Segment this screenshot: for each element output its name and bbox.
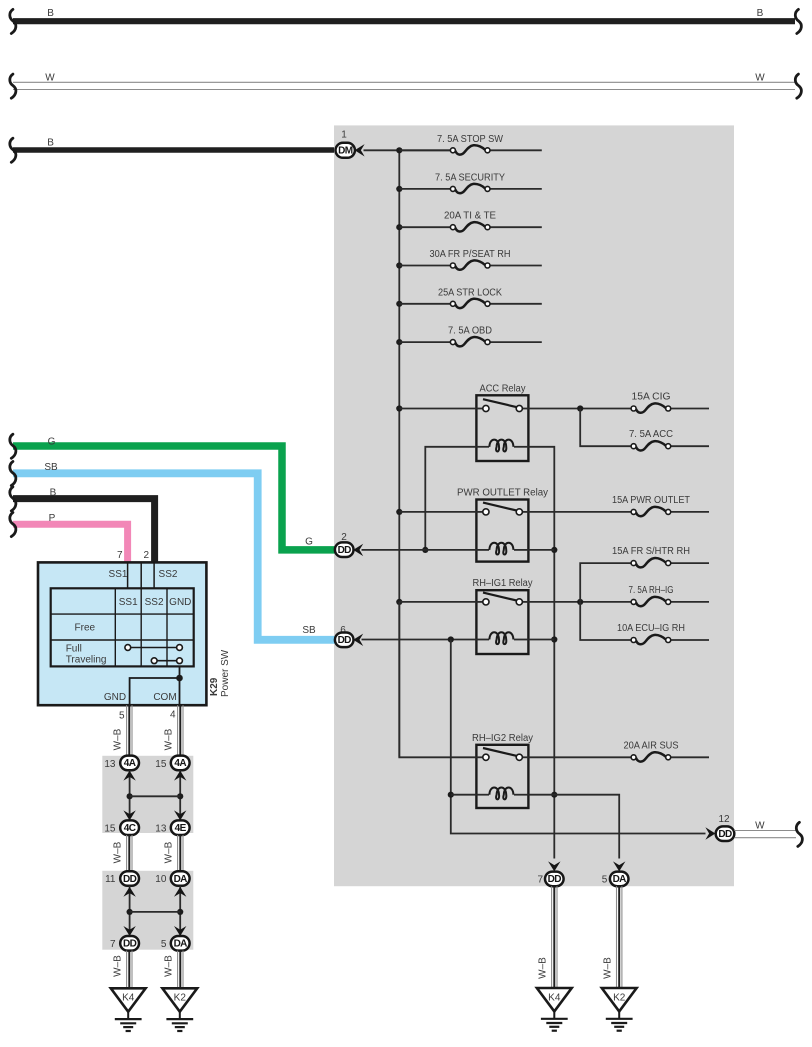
node SB branch at IG2 coil row: [448, 792, 454, 798]
wire PWR OUTLET relay output: [528, 511, 633, 513]
svg-text:B: B: [50, 487, 57, 498]
arrow down into DD7: [123, 926, 135, 936]
arrow up into DA10: [174, 887, 186, 897]
node SB branch: [448, 636, 454, 642]
connector DA (pin 5): [171, 936, 190, 951]
wire IG1 coil right stub: [528, 639, 554, 641]
wire bus W: [13, 82, 795, 89]
svg-text:7: 7: [110, 939, 116, 950]
continuation squiggle top-left: [10, 9, 16, 33]
svg-text:W: W: [45, 72, 55, 83]
wire ACC relay output: [528, 408, 633, 410]
fuse 7.5A SECURITY: [399, 172, 542, 193]
svg-text:11: 11: [105, 874, 116, 885]
node jumper DD: [127, 909, 133, 915]
fuse 10A ECU-IG RH: [617, 623, 709, 644]
svg-text:SS1: SS1: [109, 569, 128, 580]
power switch K29 body: [38, 562, 206, 705]
wire W-B DA5 to K2 ground: [617, 886, 622, 988]
arrow up into DD11: [123, 887, 135, 897]
svg-text:15A FR S/HTR RH: 15A FR S/HTR RH: [612, 546, 690, 557]
wire bus to RH-IG1 relay: [399, 601, 476, 603]
wire W-B DD to K4 ground: [127, 951, 132, 989]
relay PWR OUTLET: [476, 500, 528, 562]
svg-text:DD: DD: [338, 545, 352, 556]
arrow down into 4E: [174, 810, 186, 820]
svg-text:SB: SB: [302, 625, 316, 636]
svg-text:W: W: [755, 821, 765, 832]
wire SB (light blue): [13, 473, 336, 640]
svg-text:7: 7: [117, 550, 123, 561]
divider SS1/SS2: [140, 562, 142, 588]
svg-text:W–B: W–B: [164, 841, 175, 863]
svg-text:30A FR P/SEAT RH: 30A FR P/SEAT RH: [430, 249, 511, 260]
svg-text:P: P: [49, 513, 56, 524]
svg-text:RH–IG1 Relay: RH–IG1 Relay: [473, 578, 533, 589]
node coil common at IG1 row: [551, 636, 557, 642]
svg-text:SS2: SS2: [145, 597, 164, 608]
fuse 15A CIG: [631, 392, 709, 413]
connector 4C: [120, 820, 139, 835]
fuse 7.5A STOP SW: [399, 134, 542, 155]
fuse 30A FR P/SEAT RH: [399, 249, 542, 270]
fuse 25A STR LOCK: [399, 287, 542, 308]
svg-text:15A PWR OUTLET: 15A PWR OUTLET: [612, 495, 690, 506]
svg-text:W–B: W–B: [603, 957, 614, 979]
svg-text:5: 5: [602, 875, 608, 886]
svg-text:W: W: [755, 72, 765, 83]
svg-text:15: 15: [104, 823, 116, 834]
svg-text:Full: Full: [66, 644, 82, 655]
svg-text:SS1: SS1: [119, 597, 138, 608]
svg-text:DM: DM: [338, 146, 353, 157]
continuation squiggle W-left: [10, 74, 16, 98]
arrow up into 4A left: [123, 771, 135, 781]
fuse 15A PWR OUTLET: [612, 495, 709, 516]
connector 4E: [171, 820, 190, 835]
wire W from DD12: [734, 831, 796, 838]
wire W-B DA to K2 ground: [178, 951, 183, 989]
svg-text:B: B: [757, 8, 764, 19]
wire DM to fuse bus: [364, 149, 453, 151]
arrow into DD6: [353, 634, 363, 646]
svg-text:GND: GND: [104, 692, 126, 703]
svg-text:1: 1: [341, 130, 347, 141]
continuation squiggle B-feed left: [10, 138, 16, 162]
continuation squiggle W-right: [795, 74, 801, 98]
svg-text:DD: DD: [548, 874, 562, 885]
svg-text:13: 13: [104, 759, 116, 770]
svg-text:G: G: [48, 436, 56, 447]
svg-text:W–B: W–B: [164, 728, 175, 750]
connector DD (pin 12): [716, 826, 735, 841]
node on bus ACC relay row: [396, 405, 402, 411]
wire SB branch down to 12DD: [451, 640, 706, 834]
node coil common at IG2 row: [551, 792, 557, 798]
arrow into DD12: [705, 827, 715, 839]
wire bus to ACC relay: [399, 408, 476, 410]
continuation squiggle B-SW: [10, 487, 16, 511]
svg-text:K4: K4: [122, 993, 135, 1004]
svg-text:SB: SB: [44, 462, 58, 473]
ground K4 (left): [111, 988, 146, 1031]
relay RH-IG1: [476, 590, 528, 654]
svg-text:20A TI & TE: 20A TI & TE: [444, 211, 496, 222]
ground K2 (right): [602, 988, 637, 1031]
wire between DD pins: [129, 886, 131, 936]
svg-text:7. 5A ACC: 7. 5A ACC: [629, 429, 673, 440]
wire GND column to COM pin: [179, 666, 181, 705]
wire branch down to 10A ECU-IG RH: [580, 602, 633, 640]
switch state table: [51, 588, 194, 666]
svg-text:4A: 4A: [124, 758, 136, 769]
svg-text:RH–IG2 Relay: RH–IG2 Relay: [472, 733, 533, 744]
svg-text:K29: K29: [209, 677, 220, 696]
connector DD (pin 11): [120, 871, 139, 886]
connector DD (pin 2): [335, 542, 354, 557]
svg-text:20A AIR SUS: 20A AIR SUS: [624, 740, 679, 751]
connector 4A (pin 15): [171, 756, 190, 771]
wire PWR coil right stub: [528, 549, 554, 551]
wire P (pink) to power SW: [13, 524, 128, 563]
continuation squiggle G: [10, 434, 16, 458]
wire B feed to DM: [13, 147, 336, 153]
ground K2 (left): [162, 988, 197, 1031]
svg-text:COM: COM: [153, 692, 176, 703]
node on bus row1: [396, 147, 402, 153]
wire jumper: [130, 795, 181, 797]
svg-text:13: 13: [155, 823, 167, 834]
node ACC output branch: [577, 405, 583, 411]
svg-text:4: 4: [170, 709, 176, 720]
wire RH-IG1 relay output: [528, 601, 633, 603]
svg-text:4E: 4E: [175, 823, 187, 834]
arrow down into DA5: [174, 926, 186, 936]
svg-text:15: 15: [155, 759, 167, 770]
svg-text:GND: GND: [169, 597, 191, 608]
junction block 4 background: [102, 756, 193, 833]
ground K4 (right): [537, 988, 572, 1031]
arrow up into 4A right: [174, 771, 186, 781]
arrow down into 4C: [123, 810, 135, 820]
svg-text:5: 5: [119, 710, 125, 721]
svg-text:DD: DD: [338, 635, 352, 646]
node on bus PWR OUTLET relay row: [396, 509, 402, 515]
arrow into bottom DA: [613, 861, 625, 871]
svg-text:B: B: [47, 138, 54, 149]
svg-text:DA: DA: [613, 874, 627, 885]
svg-text:12: 12: [718, 814, 730, 825]
wire between 4A and 4E: [179, 770, 181, 820]
svg-text:5: 5: [161, 939, 167, 950]
node on bus row3: [396, 224, 402, 230]
node coil common at PWR row: [551, 547, 557, 553]
svg-text:4A: 4A: [174, 758, 186, 769]
svg-text:K2: K2: [613, 992, 626, 1003]
svg-text:W–B: W–B: [538, 957, 549, 979]
svg-text:10: 10: [155, 874, 167, 885]
svg-text:DA: DA: [174, 939, 188, 950]
contact SS2-GND: [151, 658, 182, 664]
wire ACC coil left branch: [425, 447, 476, 550]
continuation squiggle SB: [10, 462, 16, 486]
svg-text:7. 5A OBD: 7. 5A OBD: [448, 326, 492, 337]
wire W-B 4C to DD: [127, 835, 132, 871]
svg-text:B: B: [47, 8, 54, 19]
fuse 7.5A ACC: [629, 429, 709, 450]
node jumper left: [127, 793, 133, 799]
wire to GND pin: [130, 678, 180, 705]
svg-text:W–B: W–B: [164, 955, 175, 977]
node on G feed line: [422, 547, 428, 553]
svg-text:7. 5A STOP SW: 7. 5A STOP SW: [437, 134, 504, 145]
wire SS2 pin into table: [153, 562, 155, 588]
wire SS1 pin into table: [127, 562, 129, 588]
wire G feed from DD2 to PWR OUTLET coil: [362, 549, 477, 551]
wire SB feed from DD6 to RH-IG1 coil: [362, 639, 477, 641]
connector DD (pin 6): [335, 633, 354, 648]
wire branch down to 7.5A ACC: [580, 409, 633, 447]
wire bus to PWR OUTLET relay: [399, 511, 476, 513]
fuse 15A FR S/HTR RH: [612, 546, 709, 567]
svg-text:Traveling: Traveling: [66, 655, 107, 666]
connector DD (pin 7, panel bottom): [545, 872, 564, 887]
arrow into bottom DD: [548, 861, 560, 871]
node on bus row2: [396, 186, 402, 192]
wire jumper DD-DA: [130, 911, 181, 913]
svg-text:25A STR LOCK: 25A STR LOCK: [438, 287, 502, 298]
svg-text:K4: K4: [548, 992, 561, 1003]
arrow into DD2: [353, 544, 363, 556]
wire RH-IG2 relay output: [528, 756, 633, 758]
continuation squiggle DD12 wire: [796, 822, 802, 846]
node jumper right: [177, 793, 183, 799]
node RH-IG1 output branch: [577, 599, 583, 605]
fuse 20A AIR SUS: [624, 740, 710, 761]
node jumper DA: [177, 909, 183, 915]
fuse 7.5A RH-IG: [629, 585, 710, 606]
wire W-B from GND pin: [127, 705, 132, 755]
fuse 20A TI & TE: [399, 211, 542, 232]
svg-text:ACC Relay: ACC Relay: [480, 383, 526, 394]
node on bus row4: [396, 262, 402, 268]
node on bus row5: [396, 301, 402, 307]
svg-text:SS2: SS2: [159, 569, 178, 580]
svg-text:K2: K2: [174, 993, 187, 1004]
wire W-B 4E to DA: [178, 835, 183, 871]
svg-text:G: G: [305, 537, 313, 548]
wire G (green): [13, 446, 336, 550]
wire B (black) to power SW: [13, 499, 155, 563]
svg-text:Free: Free: [75, 623, 96, 634]
connector 4A (pin 13): [120, 756, 139, 771]
connector DA (pin 5, panel bottom): [610, 872, 629, 887]
connector DD (pin 7): [120, 936, 139, 951]
wire bus to RH-IG2 relay: [399, 602, 476, 757]
junction block panel background: [334, 125, 734, 886]
fuse 7.5A OBD: [399, 326, 542, 347]
connector DA (pin 10): [171, 871, 190, 886]
svg-text:DD: DD: [123, 939, 137, 950]
svg-text:DD: DD: [718, 829, 732, 840]
svg-text:7: 7: [537, 875, 543, 886]
vertical fuse bus: [398, 150, 400, 757]
arrow into DM: [355, 144, 365, 156]
continuation squiggle P: [10, 513, 16, 537]
svg-text:W–B: W–B: [113, 728, 124, 750]
wire IG2 coil right to DA drop: [528, 795, 619, 859]
relay ACC: [476, 395, 528, 461]
svg-text:2: 2: [143, 550, 149, 561]
node COM junction: [176, 675, 183, 682]
svg-text:DD: DD: [123, 874, 137, 885]
wire bus B (top): [13, 18, 795, 24]
svg-text:DA: DA: [174, 874, 188, 885]
connector DM (pin 1): [336, 143, 355, 158]
continuation squiggle top-right: [795, 9, 801, 33]
wire branch up to 15A FR S/HTR RH: [580, 563, 633, 602]
svg-text:W–B: W–B: [113, 841, 124, 863]
relay RH-IG2: [476, 745, 528, 808]
wire W-B from COM pin: [178, 705, 183, 755]
wire ACC coil right to common vertical: [528, 447, 554, 859]
svg-text:15A CIG: 15A CIG: [632, 392, 671, 403]
svg-text:Power SW: Power SW: [220, 649, 231, 697]
node on bus row6: [396, 339, 402, 345]
contact SS1-GND: [125, 645, 183, 651]
svg-text:7. 5A RH–IG: 7. 5A RH–IG: [629, 585, 674, 596]
wire W-B DD7 to K4 ground: [552, 886, 557, 988]
wire between DA pins: [179, 886, 181, 936]
node on bus RH-IG1 relay row: [396, 599, 402, 605]
svg-text:4C: 4C: [124, 823, 136, 834]
wire IG2 coil left stub: [451, 794, 477, 796]
svg-text:PWR OUTLET Relay: PWR OUTLET Relay: [457, 488, 548, 499]
wire between 4A and 4C: [129, 770, 131, 820]
svg-text:10A ECU–IG RH: 10A ECU–IG RH: [617, 623, 685, 634]
junction block DD/DA background: [102, 871, 193, 950]
svg-text:7. 5A SECURITY: 7. 5A SECURITY: [435, 172, 505, 183]
svg-text:W–B: W–B: [113, 955, 124, 977]
